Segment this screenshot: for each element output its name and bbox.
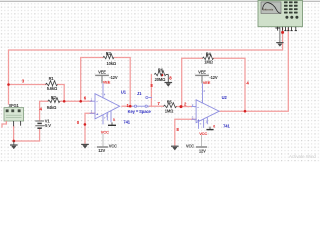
XFG1 panel detail lines bbox=[6, 114, 22, 116]
svg-text:Key = Space: Key = Space bbox=[128, 109, 152, 114]
ground at R6 right lead bbox=[165, 75, 173, 87]
svg-text:Tektronix: Tektronix bbox=[262, 8, 274, 12]
svg-text:741: 741 bbox=[123, 119, 130, 124]
junction dot on U1 + input ground wire bbox=[84, 123, 87, 126]
svg-text:R3: R3 bbox=[106, 51, 112, 56]
junction: R3 feedback at U1 inverting node bbox=[79, 100, 82, 103]
svg-text:VCC: VCC bbox=[109, 143, 117, 148]
svg-text:R2: R2 bbox=[51, 95, 57, 100]
J1 throw terminal (closed) bbox=[145, 105, 147, 107]
J1 throw terminal (open, top) bbox=[146, 96, 148, 98]
XFG1 waveform buttons bbox=[6, 109, 9, 112]
junction: left rail / R1 bbox=[7, 83, 10, 86]
XFG1 body bbox=[4, 108, 24, 121]
wire: V1 minus lead down and left to ground junction bbox=[14, 128, 40, 141]
scope pins bbox=[278, 27, 297, 31]
svg-text:VCC: VCC bbox=[101, 129, 109, 134]
scope screen sine wave bbox=[262, 3, 280, 14]
svg-text:5: 5 bbox=[113, 118, 115, 122]
svg-text:5.6kΩ: 5.6kΩ bbox=[47, 86, 58, 91]
wire: R3 right lead down to U1 output row bbox=[114, 58, 130, 107]
wire: U1 inverting input row bbox=[64, 100, 91, 102]
ground below U1 + input bbox=[81, 144, 89, 148]
canvas background bbox=[0, 0, 320, 162]
svg-text:1MΩ: 1MΩ bbox=[165, 108, 174, 113]
J1 pole terminal bbox=[134, 105, 136, 107]
scope body bbox=[258, 1, 303, 27]
ground below U2 + input wire bbox=[171, 146, 179, 150]
U2 pin numbers bbox=[192, 89, 208, 126]
junction: R3 feedback at U1 output bbox=[129, 105, 132, 108]
wire: scope ch pin down to U2 output row, left to U2 apex bbox=[220, 29, 288, 112]
J1 lead out bbox=[147, 105, 149, 107]
junction: V1/XFG1 ground node bbox=[12, 140, 15, 143]
battery V1 plates bbox=[35, 120, 44, 122]
U1 VCC 12V rail bbox=[102, 134, 104, 147]
svg-text:U1: U1 bbox=[121, 89, 127, 94]
U1 VCC connector T-bar bbox=[111, 122, 113, 124]
scope knobs bbox=[285, 16, 288, 19]
wire: R6 left lead down across switch throw to output row bbox=[150, 75, 152, 107]
svg-text:VEE: VEE bbox=[198, 70, 206, 75]
junction dot on R6 body bbox=[161, 74, 164, 77]
wire: R2 right lead bbox=[60, 100, 64, 102]
XFG1 pins bbox=[5, 121, 7, 125]
resistor R1 body bbox=[46, 81, 58, 86]
svg-text:94kΩ: 94kΩ bbox=[47, 105, 57, 110]
junction dot on scope channel pin bbox=[281, 31, 284, 34]
resistor R3 body bbox=[103, 54, 114, 59]
svg-text:VCC: VCC bbox=[199, 131, 207, 136]
svg-text:R1: R1 bbox=[49, 76, 55, 81]
U2 VEE pin (top) bbox=[202, 83, 204, 103]
U1 VCC pin (bottom) bbox=[102, 115, 104, 125]
svg-text:-12V: -12V bbox=[109, 75, 117, 80]
svg-text:R5: R5 bbox=[167, 100, 173, 105]
wire: R4 left lead down to U2 inverting node bbox=[182, 58, 203, 106]
wire: U1 output to switch J1 bbox=[122, 105, 132, 107]
U2 VCC pin (bottom) bbox=[198, 122, 200, 129]
wire: XFG1 + pin hook bbox=[2, 121, 6, 127]
op-amp U1 triangle bbox=[95, 94, 120, 119]
wire: U2 non-inverting input to ground bbox=[175, 119, 196, 145]
resistor R4 body bbox=[203, 55, 214, 60]
svg-text:12V: 12V bbox=[199, 149, 206, 154]
wire: R4 right lead down to output row bbox=[214, 58, 246, 111]
resistor R5 body bbox=[164, 103, 177, 108]
svg-text:20MΩ: 20MΩ bbox=[155, 77, 167, 82]
junction: R1/R2/U1 inverting node bbox=[63, 100, 66, 103]
svg-text:Activate Wind: Activate Wind bbox=[289, 154, 316, 159]
U1 VEE pin (top) bbox=[102, 83, 104, 98]
U2 VCC 12V rail bbox=[200, 135, 202, 146]
U2 input leads bbox=[191, 106, 196, 108]
svg-text:-12V: -12V bbox=[209, 75, 217, 80]
U2 VCC connector T-bar bbox=[209, 127, 211, 129]
wire: R5 right lead to U2 inverting input bbox=[177, 106, 192, 108]
J1 lead in bbox=[132, 105, 134, 107]
wire: R2 left lead down to battery V1 bbox=[40, 101, 48, 120]
svg-text:VEE: VEE bbox=[103, 80, 111, 85]
wire: R1 right lead down to inverting node bbox=[58, 85, 65, 102]
op-amp U2 triangle bbox=[196, 100, 219, 123]
svg-text:VEE: VEE bbox=[98, 70, 106, 75]
wire: scope ch pin down, main top feedback line, left drop to XFG1 bbox=[9, 29, 283, 105]
scope trigger pin T-bar bbox=[275, 27, 279, 29]
U2 offset pins bbox=[203, 119, 205, 128]
svg-text:10kΩ: 10kΩ bbox=[107, 61, 117, 66]
svg-text:VCC: VCC bbox=[186, 143, 194, 148]
svg-text:U2: U2 bbox=[222, 95, 228, 100]
svg-text:741: 741 bbox=[223, 123, 230, 128]
svg-text:R6: R6 bbox=[158, 67, 164, 72]
svg-text:VEE: VEE bbox=[203, 80, 211, 85]
ground below XFG1/V1 junction bbox=[10, 141, 18, 149]
U1 pin numbers bbox=[91, 93, 108, 120]
svg-text:12V: 12V bbox=[98, 148, 105, 153]
wire: R1 input lead from left rail bbox=[9, 84, 47, 86]
resistor R6 body bbox=[154, 71, 166, 76]
ground below oscilloscope bbox=[276, 27, 283, 46]
J1 lever bbox=[137, 105, 145, 107]
svg-text:R4: R4 bbox=[206, 52, 212, 57]
U1 offset pins bbox=[106, 113, 108, 121]
junction: R4 feedback at U2 output row bbox=[244, 110, 247, 113]
scope buttons bbox=[284, 1, 298, 13]
svg-text:-5 V: -5 V bbox=[44, 123, 51, 128]
wire: XFG1 COM pin down to ground junction bbox=[13, 126, 15, 141]
svg-text:1MΩ: 1MΩ bbox=[204, 59, 213, 64]
junction: R4 feedback at U2 inverting input bbox=[180, 105, 183, 108]
wire: U1 non-inverting input to ground bbox=[85, 113, 95, 144]
svg-text:6: 6 bbox=[213, 125, 215, 129]
U1 input leads bbox=[90, 100, 95, 102]
top toolbar divider line bbox=[0, 0, 320, 2]
scope screen bbox=[261, 2, 281, 14]
wire: R3 left lead down to U1 inverting node bbox=[81, 58, 103, 102]
J1 top throw stub bbox=[148, 97, 152, 99]
wire: switch J1 to R5 bbox=[149, 105, 163, 107]
resistor R2 body bbox=[48, 98, 60, 103]
